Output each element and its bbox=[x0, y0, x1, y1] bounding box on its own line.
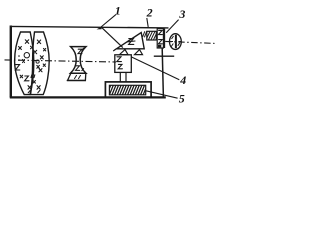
negative lens pedestal bbox=[68, 73, 86, 80]
prism hatch mark bbox=[128, 39, 135, 45]
objective small circle bbox=[36, 60, 39, 63]
photocell box bbox=[115, 55, 132, 73]
base hatch lines bbox=[107, 85, 151, 96]
lamp scribble left bbox=[143, 31, 147, 37]
svg-text:1: 1 bbox=[115, 4, 121, 18]
eyepiece dash left bbox=[170, 41, 173, 43]
housing left edge bbox=[10, 26, 12, 98]
pedestal hatch bbox=[75, 75, 81, 78]
objective glass hatch marks bbox=[15, 40, 45, 93]
base hatched block bbox=[109, 85, 145, 95]
objective O mark bbox=[24, 53, 29, 58]
prism support wedge left bbox=[120, 50, 129, 55]
svg-text:4: 4 bbox=[179, 73, 186, 87]
prism bbox=[117, 33, 145, 49]
leader line 2 bbox=[147, 18, 148, 27]
prism support wedge right bbox=[135, 50, 143, 55]
svg-text:3: 3 bbox=[178, 7, 185, 21]
photocell hatch marks bbox=[117, 57, 123, 69]
stem right bbox=[125, 72, 127, 82]
reticle mount rect bbox=[157, 29, 163, 48]
objective doublet element A bbox=[15, 32, 34, 95]
reticle bottom mark bbox=[158, 45, 161, 48]
leader line 1 bbox=[101, 15, 116, 27]
svg-text:5: 5 bbox=[179, 92, 185, 106]
eyepiece inner hatch 3 bbox=[178, 43, 180, 46]
leader 1 arrowhead bbox=[97, 26, 103, 29]
housing bottom edge bbox=[10, 96, 166, 98]
eyepiece pupil bar bbox=[175, 35, 177, 48]
base outer box bbox=[105, 82, 151, 98]
objective colon dots bbox=[18, 55, 20, 57]
reticle mount right edge bbox=[163, 29, 165, 48]
eyepiece dash right bbox=[179, 41, 182, 43]
lamp block hatch bbox=[145, 31, 160, 42]
leader line 4 bbox=[131, 57, 179, 80]
eyepiece inner hatch 2 bbox=[171, 44, 173, 47]
lamp block bbox=[147, 31, 157, 40]
objective doublet element B bbox=[31, 32, 50, 95]
eyepiece inner hatch bbox=[172, 36, 174, 39]
negative lens (biconcave) bbox=[71, 47, 87, 74]
negative lens hatch marks bbox=[76, 48, 84, 70]
ray from housing corner to prism bbox=[102, 28, 123, 48]
stem left bbox=[119, 72, 121, 82]
optical axis (main, dash-dot) bbox=[5, 60, 117, 62]
leader line 5 bbox=[146, 91, 178, 98]
eyepiece ellipse bbox=[170, 34, 182, 50]
prism hypotenuse overshoot bbox=[113, 49, 116, 51]
svg-text:2: 2 bbox=[146, 6, 153, 20]
pedestal base line bbox=[67, 80, 86, 82]
mount bracket bbox=[154, 55, 174, 57]
reticle marks bbox=[158, 30, 162, 43]
housing top edge bbox=[10, 26, 169, 28]
mount post bbox=[162, 49, 163, 98]
leader line 3 bbox=[166, 20, 178, 33]
eyepiece axis (dash-dot) bbox=[165, 41, 214, 43]
